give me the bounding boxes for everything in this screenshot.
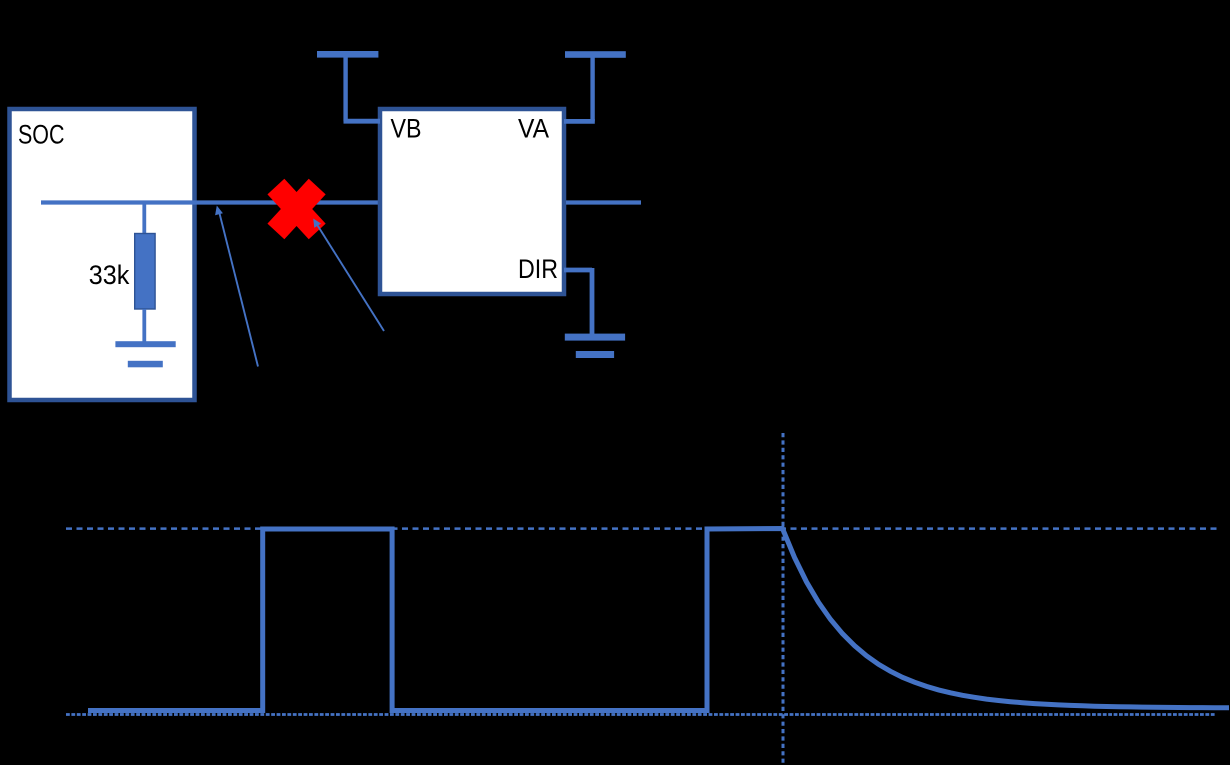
svg-text:DIR: DIR (518, 254, 558, 284)
svg-text:VA: VA (518, 114, 549, 144)
svg-text:VB: VB (391, 114, 422, 144)
svg-text:33k: 33k (89, 260, 130, 290)
svg-text:SOC: SOC (18, 120, 65, 150)
